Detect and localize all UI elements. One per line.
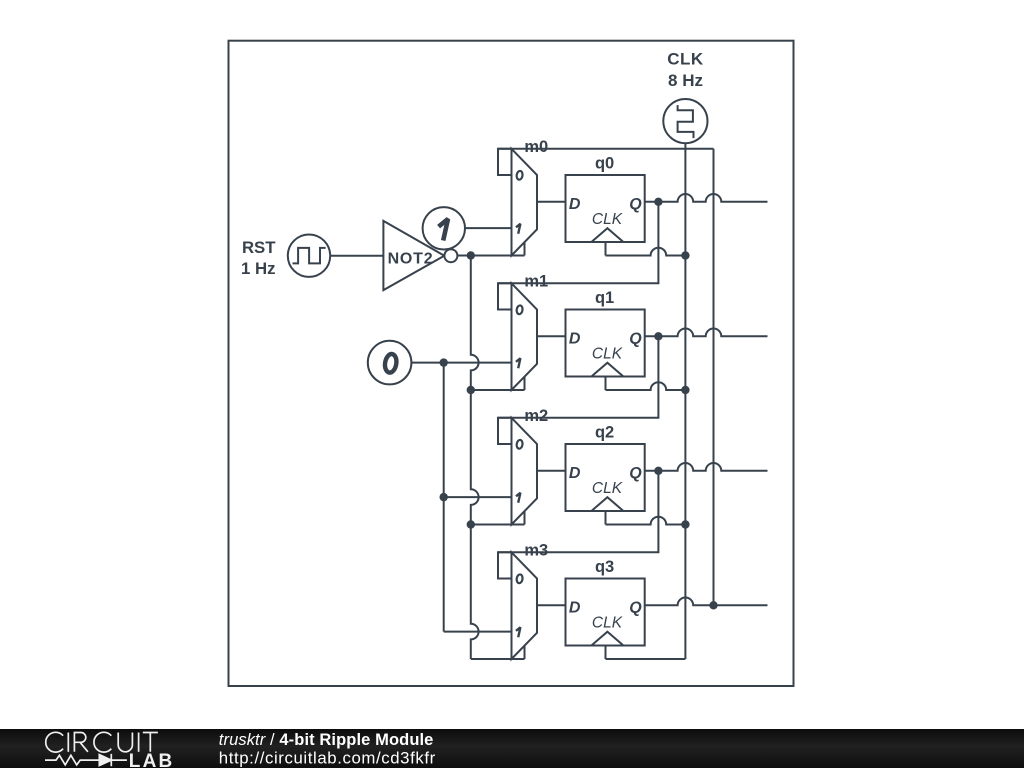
wire Q0 feedback to mux M1 [498, 202, 658, 283]
footer bar [0, 729, 1024, 768]
CircuitLab logo wordmark CIRCUIT [46, 732, 158, 752]
wire mux M3 output to D [537, 604, 566, 606]
clock source V-CLK circle [663, 99, 707, 143]
wire Q1 feedback to mux M2 [498, 336, 658, 418]
wire Q2 output row [645, 463, 768, 471]
wire NOT2 output to m0 select [457, 255, 524, 257]
wire mux M0 output to D [537, 201, 566, 203]
wire flip-flop Q2 clock pin to CLK net [605, 511, 607, 525]
label mux M1 pin 1 [516, 358, 520, 368]
svg-text:D: D [569, 331, 581, 348]
label mux M2 pin 0 [516, 440, 523, 450]
svg-text:CLK: CLK [592, 345, 623, 362]
wire mux M3 select stub [524, 646, 526, 659]
node CLK tap q2 [681, 520, 689, 528]
mux M2 input-0 step wire [498, 418, 512, 444]
svg-text:CLK: CLK [592, 614, 623, 631]
svg-text:Q: Q [629, 196, 642, 213]
wire select net vertical [471, 256, 479, 660]
svg-text:Q: Q [629, 600, 642, 617]
wire zero net vertical [443, 363, 445, 632]
svg-text:Q: Q [629, 331, 642, 348]
wire CLK net vertical [684, 149, 686, 659]
mux M0 trapezoid body [512, 149, 538, 256]
wire flip-flop Q1 clock pin to CLK net [605, 377, 607, 391]
logic state badge 0 numeral [384, 353, 398, 373]
inverter NOT2 triangle [383, 221, 444, 290]
svg-text:CLK: CLK [592, 480, 623, 497]
label mux M3 pin 0 [516, 574, 523, 584]
svg-text:NOT2: NOT2 [388, 250, 434, 267]
mux M2 trapezoid body [512, 418, 538, 525]
node feedback junction on q3.Q [709, 601, 717, 609]
wire mux M2 select stub [524, 511, 526, 524]
flip-flop Q0 clock edge triangle [591, 228, 623, 242]
mux M1 trapezoid body [512, 283, 538, 390]
label mux M0 pin 0 [516, 171, 523, 181]
node CLK tap q1 [681, 386, 689, 394]
label mux M3 pin 1 [516, 627, 520, 637]
svg-text:D: D [569, 600, 581, 617]
wire feedback vertical q3.Q to m0 [713, 149, 715, 606]
mux M0 input-0 step wire [498, 149, 512, 175]
svg-text:CLK: CLK [667, 50, 704, 69]
wire zero net row to m2 input 1 [444, 496, 512, 498]
svg-text:8 Hz: 8 Hz [668, 71, 703, 90]
logic state badge 1 numeral [439, 219, 448, 241]
node zero net junction [440, 358, 448, 366]
svg-text:q2: q2 [595, 424, 614, 442]
flip-flop Q1 body [566, 310, 645, 377]
wire zero net row to m3 input 1 [444, 631, 512, 633]
svg-text:q1: q1 [595, 289, 614, 307]
wire Q0 output row [645, 194, 768, 202]
flip-flop Q3 clock edge triangle [591, 632, 623, 646]
wire select row m1 [471, 389, 525, 391]
svg-text:m1: m1 [524, 273, 548, 291]
square-wave source V-RST circle [288, 235, 330, 277]
wire RST source to NOT2 input [330, 255, 383, 257]
wire mux M1 output to D [537, 335, 566, 337]
node zero net tap m2 [440, 493, 448, 501]
label mux M0 pin 1 [516, 224, 520, 234]
node select net junction at NOT2 output [467, 251, 475, 259]
svg-text:D: D [569, 196, 581, 213]
label mux M2 pin 1 [516, 493, 520, 503]
svg-text:trusktr / 4-bit Ripple Module: trusktr / 4-bit Ripple Module [219, 731, 434, 749]
node CLK tap q0 [681, 251, 689, 259]
mux M1 input-0 step wire [498, 283, 512, 309]
svg-text:Q: Q [629, 465, 642, 482]
svg-text:m2: m2 [524, 407, 548, 425]
node select tap m1 [467, 386, 475, 394]
border frame of schematic sheet [229, 41, 794, 686]
wire select row m2 [471, 524, 525, 526]
svg-text:http://circuitlab.com/cd3fkfr: http://circuitlab.com/cd3fkfr [219, 748, 436, 767]
wire Q3 output row [645, 598, 768, 606]
node Q2 output junction [654, 467, 662, 475]
wire select net corner to m3 select [471, 658, 525, 660]
svg-text:LAB: LAB [129, 751, 175, 768]
wire flip-flop Q3 clock pin to CLK net [605, 646, 607, 660]
wire flip-flop Q0 clock pin to CLK net [605, 242, 607, 256]
wire mux M0 select stub [524, 242, 526, 255]
wire m0 input-0 net top [498, 148, 714, 150]
wire Q1 output row [645, 328, 768, 336]
node Q0 output junction [654, 198, 662, 206]
svg-text:D: D [569, 465, 581, 482]
clock source waveform glyph [678, 105, 694, 138]
wire Q2 feedback to mux M3 [498, 471, 658, 553]
flip-flop Q3 body [566, 579, 645, 646]
svg-text:CLK: CLK [592, 211, 623, 228]
svg-text:q3: q3 [595, 558, 614, 576]
mux M3 trapezoid body [512, 552, 538, 659]
wire mux M1 select stub [524, 377, 526, 390]
square-wave source glyph [293, 248, 326, 264]
flip-flop Q0 body [566, 175, 645, 242]
svg-text:1 Hz: 1 Hz [241, 259, 276, 278]
svg-text:m0: m0 [524, 138, 548, 156]
wire mux M2 output to D [537, 470, 566, 472]
mux M3 input-0 step wire [498, 552, 512, 578]
flip-flop Q1 clock edge triangle [591, 363, 623, 377]
svg-text:q0: q0 [595, 155, 614, 173]
inverter NOT2 output bubble [444, 249, 457, 262]
logic state badge 1 circle [423, 207, 465, 249]
label mux M1 pin 0 [516, 305, 523, 315]
flip-flop Q2 body [566, 444, 645, 511]
CircuitLab logo resistor-diode glyph [45, 754, 127, 766]
node select tap m2 [467, 520, 475, 528]
flip-flop Q2 clock edge triangle [591, 497, 623, 511]
logic state badge 0 circle [368, 341, 412, 385]
svg-text:RST: RST [242, 238, 276, 257]
wire badge 1 to m0 input 1 [464, 227, 511, 229]
wire badge 0 to m1 input 1 [411, 362, 512, 364]
wire CLK source to CLK net [684, 143, 686, 149]
node Q1 output junction [654, 332, 662, 340]
svg-text:m3: m3 [524, 542, 548, 560]
